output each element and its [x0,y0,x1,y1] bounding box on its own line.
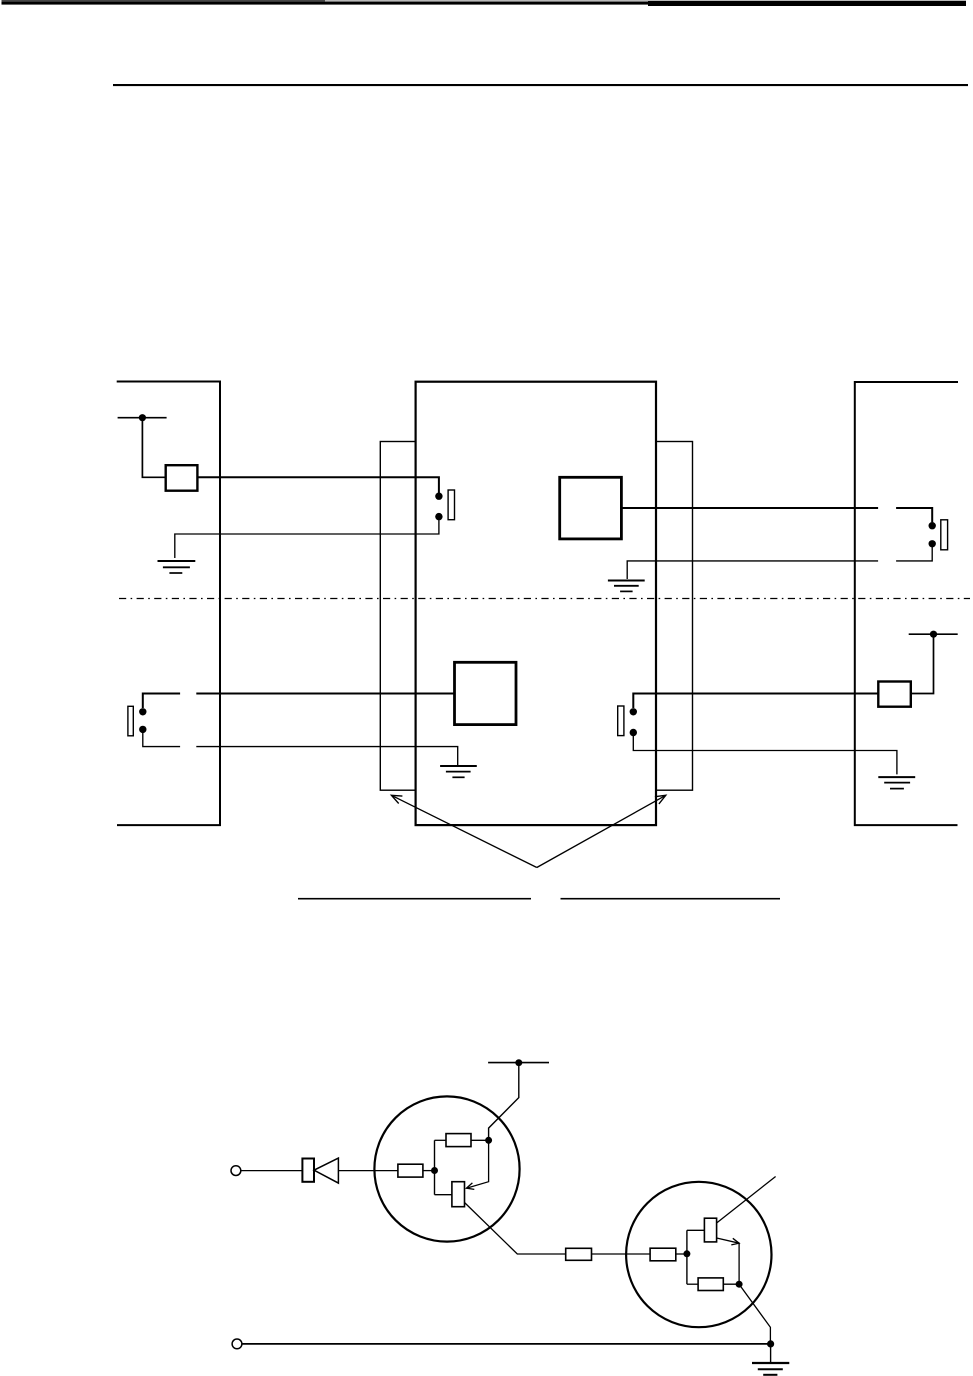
wire ground return upper-right [627,544,932,579]
wire R4 to node C1 [471,1139,489,1141]
resistor R1 [166,465,198,491]
wire base Q1 [435,1194,452,1196]
page header bar [2,0,967,6]
node B1 dot [431,1167,438,1174]
node B2 dot [683,1250,690,1257]
node GND dot [767,1340,774,1347]
wire signal lower-right [633,694,878,709]
wire emitter Q2 arrow [717,1238,740,1284]
wire to resistor [142,418,165,478]
center unit box [416,382,656,825]
wire supply stub [118,417,167,419]
section rule [113,84,968,86]
receiver U2 [455,662,517,724]
wire ground return lower-left [143,729,458,765]
wire R6 to node B2 [676,1253,687,1255]
wire R3 to node B1 [423,1170,435,1172]
wire R5 to R6 [592,1253,651,1255]
transistor body Q2 [704,1218,716,1242]
left unit box [117,382,220,826]
wire signal upper-right [621,508,932,522]
connector pin CN2 [941,520,948,550]
wire emitter Q1 to R5 [465,1203,566,1255]
label underline right [561,898,781,900]
resistor R5 [566,1248,592,1260]
junction dot Vcc [515,1059,522,1066]
wire ground return lower-right [633,733,897,775]
wire collector Q2 [717,1177,776,1224]
transistor body Q1 [452,1182,465,1207]
connector pin CN4 [618,706,624,736]
resistor R4 [446,1134,471,1147]
wire to Q2 body [687,1229,705,1231]
right connector strip [656,442,693,791]
resistor R3 [398,1164,423,1177]
resistor R2 [878,682,911,707]
wire collector drop with arrow into Q1 [466,1140,488,1189]
wire Vcc drop [489,1063,519,1141]
callout arrow left [391,795,536,867]
wire T1 to diode [241,1170,302,1172]
left connector strip [380,442,415,791]
wire emitter to ground node [739,1284,770,1344]
resistor R7 [698,1278,723,1291]
pin contact dots CN2 [929,522,936,548]
junction dot [139,414,146,421]
receiver U1 [560,477,622,539]
node C1 dot [485,1137,492,1144]
wire to R4 [435,1139,447,1141]
transistor circle Q2 [626,1182,771,1327]
connector pin CN3 [128,706,133,736]
node E2 dot [736,1281,743,1288]
ground (lower-right) [878,777,915,789]
wire resistor to supply [911,634,934,693]
wire node B2 to R7 [687,1283,698,1285]
connector pin CN1 [448,490,454,520]
pin contact dots CN3 [139,708,146,733]
wire signal lower-left [143,694,455,709]
terminal T2 [232,1339,242,1349]
diode D1 [302,1158,338,1183]
wire R7 to node E2 [723,1283,739,1285]
pin contact dots CN1 [435,493,442,521]
wire signal upper-left [197,477,439,493]
right unit box [855,382,958,825]
label underline left [298,898,531,900]
callout arrow right [537,795,666,867]
resistor R6 [650,1248,676,1261]
wire common return [242,1343,770,1345]
wire supply stub right [909,633,958,635]
terminal T1 [231,1166,241,1176]
pin contact dots CN4 [630,708,637,736]
Vcc rail [488,1062,549,1064]
wire ground return upper-left [175,517,439,558]
dash-dot boundary line [119,598,970,600]
ground (upper-left) [158,561,196,573]
ground (lower-left) [440,766,477,777]
wire node B2 riser [686,1230,688,1284]
wire node B1 riser [434,1140,436,1194]
transistor circle Q1 [374,1096,519,1241]
junction dot [930,631,937,638]
ground (upper-right) [608,581,645,592]
wire diode to R3 [338,1170,398,1172]
ground (bottom) [752,1344,789,1375]
